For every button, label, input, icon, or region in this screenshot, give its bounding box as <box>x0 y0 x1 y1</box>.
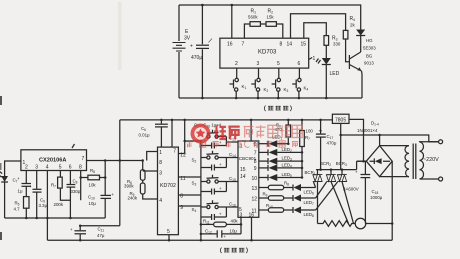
svg-text:5: 5 <box>59 165 62 171</box>
svg-text:560k: 560k <box>248 15 258 20</box>
battery E <box>173 43 186 52</box>
LED indicator <box>316 58 340 77</box>
wire pin16 to rail <box>231 5 233 38</box>
node pin16 bus <box>250 239 253 242</box>
node pin7 long vertical <box>119 159 122 162</box>
photodiode D5 <box>0 171 8 182</box>
svg-text:8: 8 <box>280 42 283 48</box>
node top rail / C5 <box>201 4 204 7</box>
resistor R15 row LED8 <box>259 203 316 218</box>
node R8 top <box>104 176 107 179</box>
svg-text:2: 2 <box>25 165 28 171</box>
svg-text:+: + <box>219 186 222 191</box>
node R chain top <box>141 159 144 162</box>
resistor R9 240k <box>128 180 158 200</box>
wire pin3 link <box>143 170 158 172</box>
node 7805 gnd mains <box>339 134 342 137</box>
wire rail drop to pin12 <box>178 120 184 154</box>
wire CBC pin3 down <box>240 217 242 224</box>
push switch K2 <box>251 68 268 99</box>
IC U3 KD702 <box>158 147 179 235</box>
LED3 row <box>259 156 303 165</box>
pin numbers KD702 <box>159 149 186 235</box>
wire CBC901 vdd from rail <box>250 120 252 141</box>
svg-text:1000μ: 1000μ <box>370 195 383 200</box>
resistor R11 40k <box>200 218 243 226</box>
svg-text:47μ: 47μ <box>97 233 105 238</box>
bridge rectifier D1-4 <box>357 121 392 177</box>
capacitor C10 10u <box>88 161 115 219</box>
watermark big text weiku <box>214 125 240 139</box>
svg-text:LED: LED <box>330 71 340 77</box>
svg-text:3.3μ: 3.3μ <box>39 203 48 208</box>
wire long vertical left <box>119 120 121 226</box>
svg-text:3A600V: 3A600V <box>343 187 359 192</box>
watermark slogan line <box>187 141 299 148</box>
wire pin7 output <box>87 160 143 162</box>
wire photodiode to ground rail <box>4 182 6 218</box>
wire bridge top to transformer <box>380 145 409 147</box>
svg-text:CX20106A: CX20106A <box>39 158 66 164</box>
wire receiver top rail <box>120 119 333 121</box>
tick near C5 <box>209 39 213 43</box>
capacitor C17 470u <box>316 119 337 171</box>
svg-text:1: 1 <box>159 150 162 156</box>
faint scan streak <box>118 2 122 70</box>
svg-text:200k: 200k <box>54 202 64 207</box>
label E 3V <box>184 29 191 42</box>
capacitor C5 470u column <box>201 5 203 98</box>
wire primary top <box>420 141 439 143</box>
scan edge artifact left bottom <box>0 232 2 240</box>
wire R3 to LED <box>325 45 327 58</box>
capacitor C12 10u <box>200 224 241 239</box>
node row1 drop <box>183 140 186 143</box>
transformer T1 primary <box>420 142 424 179</box>
svg-text:2k: 2k <box>350 23 355 28</box>
wire KD702 right stubs <box>178 177 201 206</box>
wire row2 to CBC pin15 <box>226 157 238 159</box>
push switch K1 <box>230 68 247 99</box>
node rail drop x184.7 <box>183 119 186 122</box>
svg-text:15k: 15k <box>267 15 275 20</box>
svg-text:5E303: 5E303 <box>363 46 376 51</box>
svg-text:15: 15 <box>240 167 246 173</box>
capacitor C7 1u <box>13 171 32 194</box>
svg-text:1μ: 1μ <box>18 189 23 194</box>
svg-text:470μ: 470μ <box>327 140 337 145</box>
wire 7805 out right <box>349 119 364 161</box>
svg-text:3: 3 <box>159 170 162 176</box>
wire pin15 to R3 <box>304 23 327 38</box>
LED4 row <box>259 163 303 172</box>
wire long ground bus <box>47 239 391 241</box>
svg-text:14: 14 <box>287 42 293 48</box>
node bus joints <box>330 160 365 171</box>
capacitor C11 47u <box>70 224 105 241</box>
resistor R5 4.7 <box>14 187 30 220</box>
push switch K4 <box>292 68 308 99</box>
node load bus <box>391 222 394 225</box>
svg-text:+: + <box>112 192 115 197</box>
push switch K3 <box>272 68 289 99</box>
transistor Q1 BG9013 <box>349 52 374 71</box>
svg-text:5: 5 <box>167 229 170 235</box>
triac top bus <box>316 161 366 169</box>
svg-text:10: 10 <box>252 176 258 182</box>
memory switch S3 with capacitor C15 <box>192 175 236 195</box>
svg-text:10k: 10k <box>89 183 97 188</box>
triac BCR2 <box>320 161 349 224</box>
svg-text:240k: 240k <box>128 196 138 201</box>
svg-text:BG: BG <box>366 54 373 59</box>
gate wire BCR3 <box>316 182 338 210</box>
svg-text:13: 13 <box>252 186 258 192</box>
resistor R6 390k <box>124 161 145 189</box>
wire bridge bottom to transformer <box>380 176 409 178</box>
wire primary bottom <box>420 178 439 180</box>
resistor R2 15k <box>266 9 276 27</box>
svg-text:KD702: KD702 <box>160 183 176 189</box>
svg-text:6: 6 <box>69 165 72 171</box>
svg-text:14: 14 <box>240 174 246 180</box>
svg-text:10μ: 10μ <box>230 228 238 233</box>
svg-text:+: + <box>190 44 193 50</box>
pin numbers KD703 top <box>227 42 306 48</box>
capacitor C9 3.3u <box>29 171 48 220</box>
capacitor C18 1000u <box>355 161 383 223</box>
svg-text:+: + <box>219 212 222 217</box>
svg-text:2: 2 <box>235 61 238 67</box>
heater load zigzag <box>318 221 356 227</box>
svg-text:4: 4 <box>159 198 162 204</box>
triac BCR3 <box>336 161 354 224</box>
wire row1 to CBC pin1 <box>226 141 238 143</box>
LED2 row <box>259 147 303 156</box>
triac BCR1 <box>305 170 323 224</box>
gate wire BCR1 <box>314 182 316 188</box>
wire pin14 to R4 <box>291 14 346 39</box>
tick above CX20106A <box>72 144 75 148</box>
svg-text:40k: 40k <box>231 218 239 223</box>
capacitor C8 330p <box>67 171 81 220</box>
svg-text:+: + <box>17 176 20 181</box>
wire battery column <box>178 5 180 98</box>
svg-text:4.7: 4.7 <box>14 207 21 212</box>
memory switch S1 with capacitor C13 <box>201 130 236 149</box>
svg-text:470μ: 470μ <box>191 55 202 61</box>
wire bridge right down <box>391 161 394 240</box>
memory switch S4 with capacitor C16 <box>192 200 236 220</box>
resistor R6b 470 <box>275 119 291 144</box>
node left vertical bus <box>200 239 203 242</box>
node pin7/C10 <box>104 159 107 162</box>
svg-text:+: + <box>29 184 32 189</box>
wire bottom rail transmitter <box>179 97 362 99</box>
svg-text:+: + <box>219 162 222 167</box>
node bottom rail / C5 <box>201 97 204 100</box>
transformer core <box>413 144 416 180</box>
wire KD702 pin5 to bus <box>168 235 170 241</box>
svg-text:6: 6 <box>298 61 301 67</box>
wire row3 to CBC pin14 <box>226 181 238 183</box>
svg-text:0.01μ: 0.01μ <box>139 133 151 138</box>
gate wire BCR2 <box>316 182 327 198</box>
svg-text:7: 7 <box>82 156 85 162</box>
motor M circle <box>355 218 366 229</box>
wire bridge label vertical <box>379 135 381 146</box>
svg-text:7: 7 <box>254 151 257 157</box>
wire row1 left link <box>185 140 201 142</box>
capacitor C5 470u <box>190 44 209 62</box>
svg-text:7: 7 <box>173 149 176 155</box>
svg-text:330p: 330p <box>71 189 81 194</box>
wire 7805 gnd down <box>340 123 342 169</box>
wire pin7 up to R1 <box>244 24 250 38</box>
svg-text:3: 3 <box>257 61 260 67</box>
resistor R4 2k <box>343 16 355 39</box>
node pin8 R8 <box>79 176 82 179</box>
label receiver <box>220 248 247 254</box>
node pin7 rail <box>171 119 174 122</box>
wire motor to node <box>366 223 392 225</box>
svg-text:1: 1 <box>313 56 316 62</box>
resistor R7 200k <box>51 171 70 207</box>
wire mains top line <box>341 135 439 142</box>
svg-text:100: 100 <box>306 128 314 133</box>
memory switch S2 with capacitor C14 <box>192 151 236 171</box>
svg-text:HG: HG <box>366 38 373 43</box>
resistor R13 row LED6 <box>259 181 316 196</box>
svg-text:12: 12 <box>180 153 186 159</box>
node top rail / pin16 <box>231 4 234 7</box>
wire row4 to CBC pin5 <box>226 206 238 208</box>
pin numbers CX20106A <box>23 156 85 171</box>
svg-text:8: 8 <box>159 160 162 166</box>
op-amp U1 KD703 box <box>220 38 309 68</box>
scan edge artifact left mid <box>0 163 2 170</box>
svg-text:7: 7 <box>242 42 245 48</box>
wire line B <box>80 225 120 227</box>
svg-text:3V: 3V <box>184 36 191 42</box>
wire emitter to bottom rail <box>361 71 364 98</box>
node mains bridge <box>378 134 381 137</box>
scan edge artifact left top <box>0 96 2 105</box>
svg-text:9: 9 <box>254 166 257 172</box>
svg-text:+: + <box>219 140 222 145</box>
svg-text:+: + <box>224 234 227 239</box>
wire CBC pin16 to bus <box>251 217 253 240</box>
svg-text:8: 8 <box>79 165 82 171</box>
wire pin1 to photodiode <box>5 161 21 176</box>
capacitor C6 0.01u <box>139 119 168 147</box>
node vdd rail <box>250 119 253 122</box>
wire KD702 pin1 to long vertical <box>147 152 158 161</box>
wire bridge left to bus G <box>357 160 367 162</box>
resistor R12 100 <box>300 119 314 178</box>
svg-text:+: + <box>355 170 358 175</box>
LED1 row <box>259 134 290 147</box>
svg-text:15: 15 <box>301 42 307 48</box>
svg-text:330: 330 <box>333 42 341 47</box>
node pin4 ground rail <box>46 217 49 220</box>
LED5 row <box>259 172 303 181</box>
terminal circle top <box>439 140 443 144</box>
resistor R1 560k <box>248 9 260 27</box>
svg-text:5: 5 <box>277 61 280 67</box>
voltage regulator 7805 <box>332 114 349 123</box>
terminal circle bottom <box>439 177 443 181</box>
transformer T1 secondary <box>405 146 409 177</box>
node LED bottom rail <box>325 97 328 100</box>
svg-text:4: 4 <box>46 165 49 171</box>
svg-text:~220V: ~220V <box>423 157 439 163</box>
svg-text:KD703: KD703 <box>258 50 277 56</box>
wire pin8 column <box>80 171 82 201</box>
node pin5 bus <box>168 239 171 242</box>
svg-text:3: 3 <box>35 165 38 171</box>
svg-text:1N4001×4: 1N4001×4 <box>357 128 378 133</box>
wire ground rail receiver left <box>5 217 106 219</box>
IC U4 CBC901 <box>238 141 259 217</box>
wire pin4 down to bus <box>46 171 48 241</box>
svg-text:+: + <box>70 227 73 232</box>
IC U2 CX20106A <box>21 150 87 171</box>
svg-text:10μ: 10μ <box>89 201 97 206</box>
label transmitter <box>264 106 291 112</box>
svg-text:16: 16 <box>227 42 233 48</box>
wire R2 to pin8 <box>276 24 282 38</box>
watermark logo <box>191 124 211 144</box>
pin 1 tick KD703 right <box>309 56 316 62</box>
wire KD702 pin7 to rail <box>171 120 173 147</box>
svg-text:3: 3 <box>240 213 243 219</box>
resistor R3 330 <box>324 36 341 47</box>
wire IR diode to collector <box>360 36 362 53</box>
svg-text:11: 11 <box>252 209 257 215</box>
pin numbers KD703 bottom <box>235 61 301 67</box>
wire switch-row left vertical <box>200 137 202 241</box>
svg-text:8: 8 <box>254 159 257 165</box>
pin numbers CBC901 <box>239 142 257 219</box>
resistor R14 row LED7 <box>259 191 316 206</box>
watermark text dianzishichangwang <box>244 125 303 137</box>
svg-text:12: 12 <box>252 197 258 203</box>
svg-text:9013: 9013 <box>364 61 374 66</box>
svg-text:390k: 390k <box>124 183 134 188</box>
wire LED to bottom rail <box>325 65 327 99</box>
resistor R8 10k <box>81 168 106 188</box>
svg-text:7805: 7805 <box>335 117 346 123</box>
infrared diode HG 5E303 <box>356 30 376 51</box>
wire R4 to base <box>346 39 350 62</box>
wire R1-R2 <box>260 23 266 25</box>
wire top rail transmitter <box>179 5 361 30</box>
